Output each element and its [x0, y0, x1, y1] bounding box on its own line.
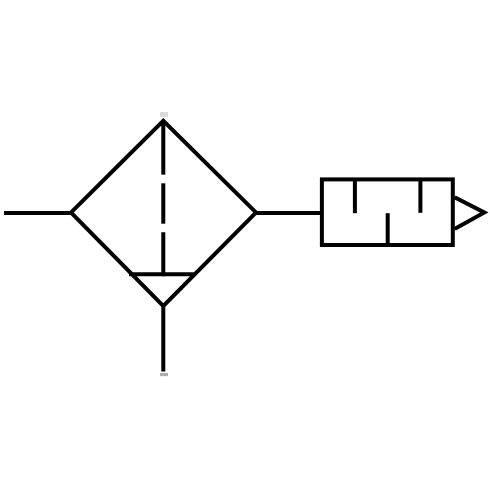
filter F1: dashed element centerline segment 3 — [161, 232, 165, 276]
exhaust arrow: open triangle at outlet — [455, 197, 485, 229]
port marker: top connection handle (grey) — [160, 112, 168, 117]
wire: inlet port line (left) — [4, 211, 73, 215]
silencer U1: baffle finger 2 (from bottom, middle) — [386, 213, 390, 245]
silencer U1: baffle finger 1 (from top) — [353, 179, 357, 213]
wire: connector from filter outlet to silencer — [256, 211, 322, 215]
silencer U1: baffle finger 3 (from top) — [418, 179, 422, 212]
filter F1: dashed element centerline segment 2 — [161, 183, 165, 223]
port marker: drain connection handle (grey) — [160, 373, 168, 376]
filter F1: dashed element centerline segment 1 — [161, 121, 165, 175]
silencer U1: rectangular body — [322, 179, 453, 245]
filter F1: diamond body (water separator) — [71, 121, 256, 306]
wire: condensate drain line (bottom) — [161, 306, 165, 372]
filter F1: condensate separator baffle line — [129, 272, 196, 276]
